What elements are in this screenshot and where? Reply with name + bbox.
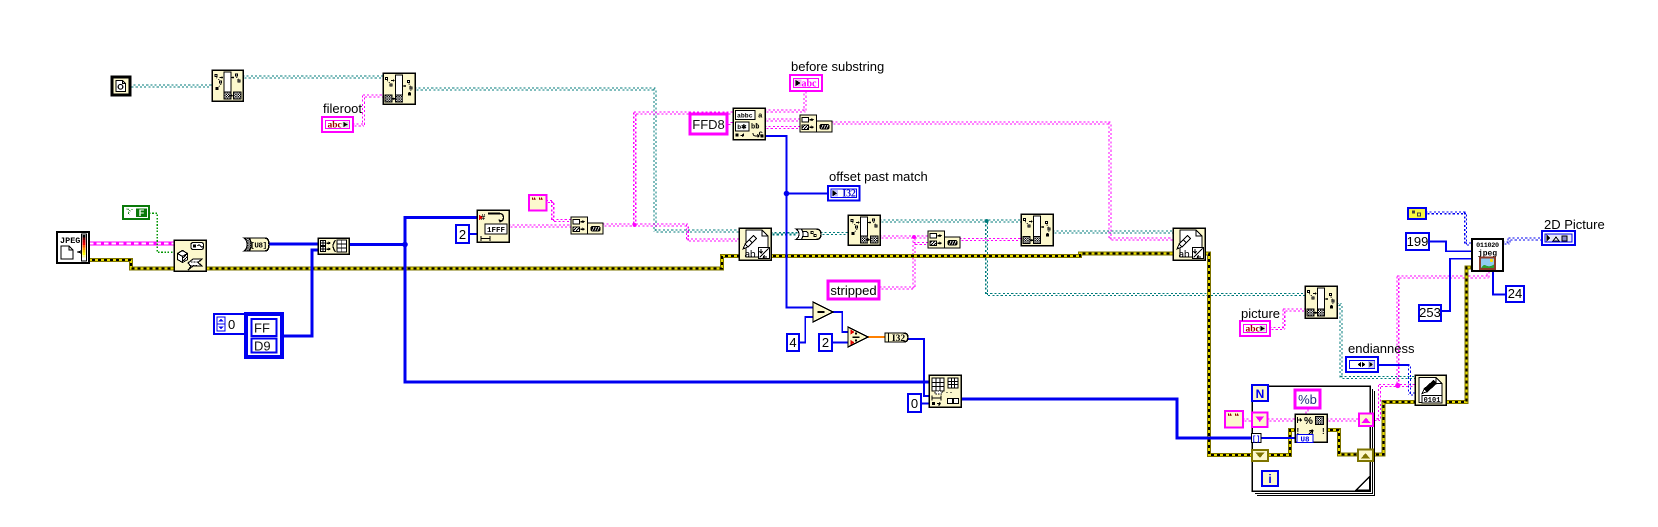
svg-text:2: 2	[822, 335, 829, 350]
svg-text:ab: ab	[745, 250, 757, 261]
svg-text:199: 199	[1407, 234, 1429, 249]
svg-text:%b: %b	[1298, 392, 1317, 407]
svg-text:fileroot: fileroot	[323, 101, 362, 116]
svg-text:24: 24	[1508, 286, 1522, 301]
svg-text:i: i	[1268, 472, 1271, 486]
svg-text:ab: ab	[1179, 250, 1191, 261]
svg-text:4: 4	[789, 335, 796, 350]
svg-text:253: 253	[1419, 305, 1441, 320]
svg-text:!: !	[1322, 427, 1325, 436]
svg-text:b✱: b✱	[737, 123, 747, 131]
svg-text:0: 0	[911, 396, 918, 411]
svg-text:0: 0	[228, 317, 235, 332]
svg-text:offset past match: offset past match	[829, 169, 928, 184]
svg-text:a: a	[758, 113, 763, 121]
svg-text:1FFF: 1FFF	[487, 227, 506, 235]
svg-text:2D Picture: 2D Picture	[1544, 217, 1605, 232]
svg-text:%: %	[1304, 416, 1313, 427]
svg-text:U8: U8	[1300, 436, 1310, 444]
svg-text:2: 2	[459, 227, 466, 242]
svg-text:[U8]: [U8]	[250, 243, 266, 251]
svg-text:[]: []	[1252, 436, 1260, 444]
svg-text:before substring: before substring	[791, 59, 884, 74]
svg-text:FFD8: FFD8	[692, 117, 725, 132]
svg-text:N: N	[1256, 387, 1265, 401]
svg-text:abc: abc	[802, 79, 818, 90]
svg-text:abbc: abbc	[737, 113, 753, 120]
svg-text:F: F	[139, 208, 145, 218]
svg-text:FF: FF	[254, 321, 270, 336]
svg-text:D9: D9	[254, 339, 271, 354]
svg-text:JPEG: JPEG	[60, 236, 80, 246]
svg-text:abc: abc	[328, 121, 342, 131]
svg-text:0101: 0101	[1424, 397, 1441, 405]
svg-text:picture: picture	[1241, 306, 1280, 321]
svg-text:stripped: stripped	[830, 283, 876, 298]
svg-text:abc: abc	[1246, 325, 1260, 335]
svg-text:endianness: endianness	[1348, 341, 1415, 356]
svg-text:I32: I32	[842, 189, 855, 200]
svg-text:I32: I32	[892, 334, 905, 344]
